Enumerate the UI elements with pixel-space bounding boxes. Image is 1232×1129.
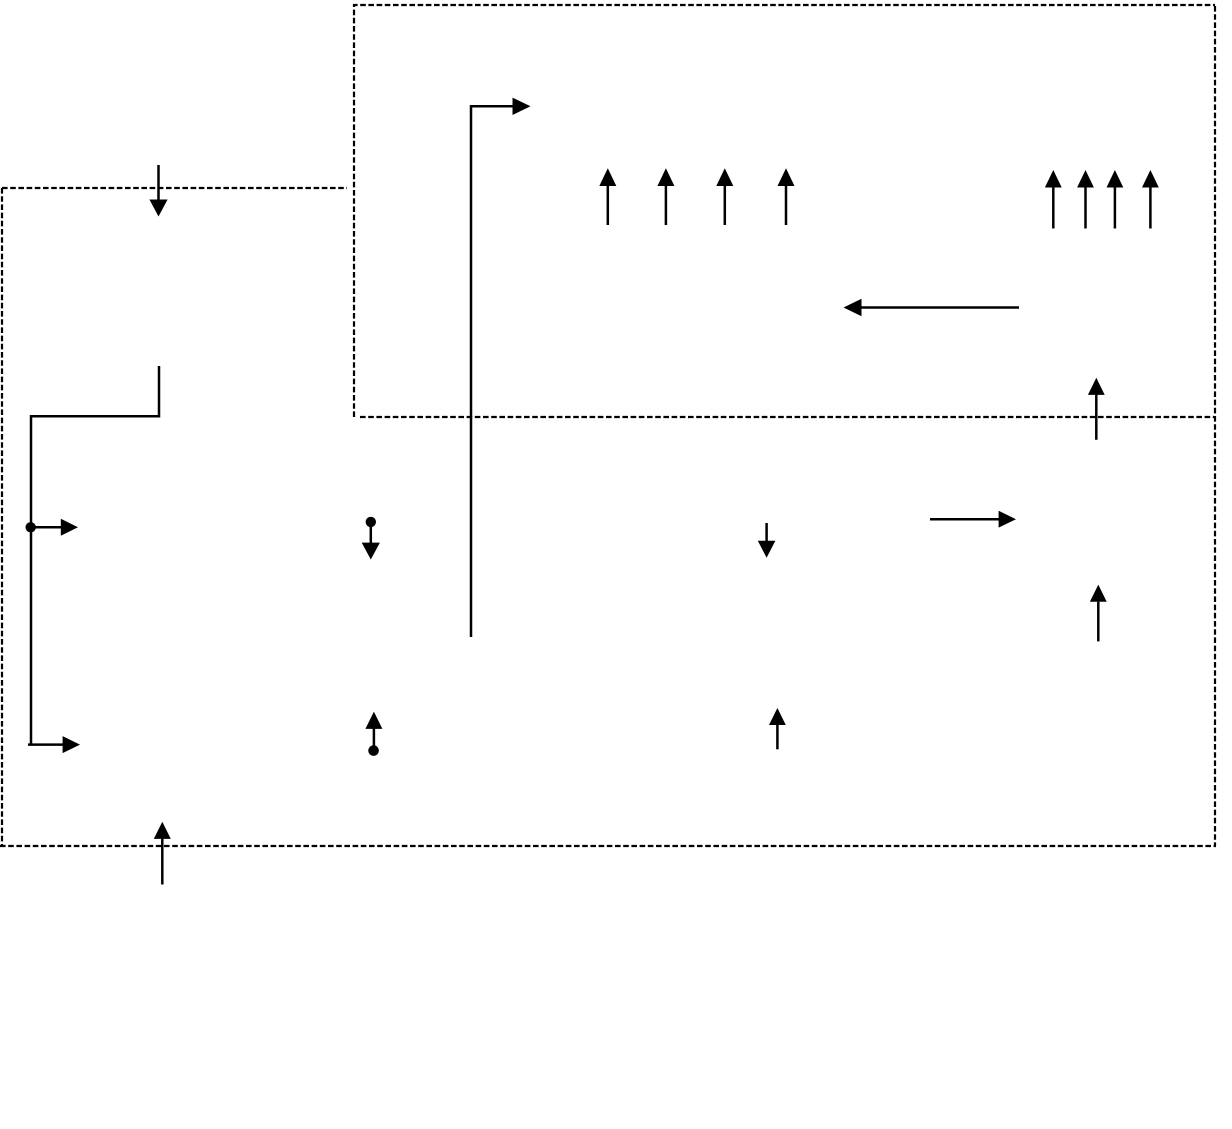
node dot below short up arrow — [368, 745, 379, 756]
dashed divider: bottom edge of upper room — [360, 416, 1215, 418]
node dot above short down arrow — [366, 517, 376, 527]
down arrow into left room (crosses top dashed edge) — [149, 165, 167, 217]
up arrow right side lower — [1090, 585, 1107, 642]
dashed outer boundary: left-room top edge — [2, 187, 347, 189]
up arrow group 2, arrow 4 — [1142, 170, 1159, 229]
short up arrow center lower — [769, 708, 786, 749]
short down arrow below dot — [362, 524, 380, 560]
branch node dot on left wire — [26, 522, 36, 532]
up arrow group 1, arrow 3 — [716, 168, 733, 225]
up arrow group 2, arrow 3 — [1107, 170, 1124, 229]
up arrow crossing bottom dashed edge — [154, 822, 171, 885]
up arrow group 1, arrow 2 — [657, 168, 674, 225]
branch arrow right from dot — [31, 519, 78, 536]
dashed outer boundary: bottom edge — [0, 845, 1216, 847]
up arrow group 1, arrow 4 — [778, 168, 795, 225]
up arrow crossing divider — [1088, 378, 1105, 440]
dashed enclosure: right edge full height — [1214, 6, 1216, 846]
dashed outer boundary: left edge — [1, 188, 3, 845]
up arrow group 1, arrow 1 — [599, 168, 616, 225]
long vertical wire with elbow arrow right at top — [471, 98, 531, 637]
short up arrow above dot — [365, 712, 382, 748]
dashed enclosure upper room: left and top edges — [354, 5, 1215, 417]
Z-shaped wire on left (down, left, down) — [31, 366, 159, 746]
right arrow toward right wall — [930, 511, 1016, 528]
up arrow group 2, arrow 1 — [1045, 170, 1062, 229]
bottom-left arrow right at end of wire — [28, 736, 80, 753]
up arrow group 2, arrow 2 — [1077, 170, 1094, 229]
short down arrow center — [758, 523, 776, 558]
long left arrow in upper room — [844, 299, 1020, 317]
